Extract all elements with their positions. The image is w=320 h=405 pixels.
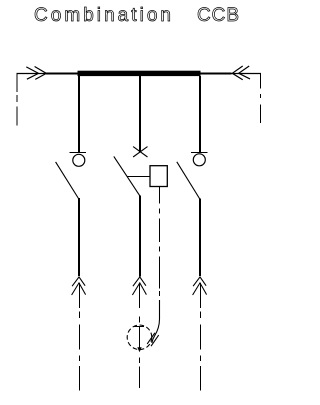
disconnect switch S1 (left): open blade <box>56 162 79 199</box>
wire: middle lower conductor <box>139 196 141 277</box>
CT arrowhead <box>137 347 141 352</box>
left feeder dash-dot drop <box>16 73 18 126</box>
svg-text:Combination: Combination <box>34 5 171 26</box>
control line curved lead to CT <box>152 300 160 343</box>
wire: right arrow shaft <box>200 283 202 308</box>
circuit breaker CB (middle): open blade <box>114 156 140 195</box>
right feeder centerline (bottom dash-dot) <box>200 312 202 391</box>
wire: right lower conductor <box>199 199 201 277</box>
disconnect switch S1 (left): hinge tick <box>69 152 86 154</box>
wire: left conductor thick segment to busbar <box>46 73 78 75</box>
left feeder centerline (bottom dash-dot) <box>79 312 81 391</box>
circuit breaker CB: operating mechanism box <box>150 166 167 187</box>
wire: right conductor thick segment from busbar <box>200 73 232 75</box>
double slash (two conductors mark) <box>147 333 159 346</box>
wire: left arrow shaft <box>79 283 81 308</box>
wire: right drop from busbar <box>199 76 201 152</box>
CT arrow line down <box>139 326 141 348</box>
middle feeder centerline (bottom dash-dot) <box>139 316 141 388</box>
disconnect switch S2 (right): open blade <box>177 162 200 199</box>
CT dashed circle <box>127 325 152 350</box>
busbar <box>78 71 201 76</box>
svg-text:CCB: CCB <box>197 5 239 26</box>
wire: middle drop from busbar <box>139 76 141 152</box>
wire: right outgoing horizontal (thin shaft) <box>200 73 261 75</box>
right feeder dash-dot drop <box>260 73 262 123</box>
CT top tick <box>134 326 144 328</box>
circuit breaker CB: mechanism linkage <box>128 176 150 178</box>
wire: left incoming horizontal (thin shaft) <box>17 73 79 75</box>
arrow: right double chevron pointing left <box>232 66 250 80</box>
title: Combination CCB <box>34 5 239 26</box>
fuse X mark (middle) <box>133 147 147 157</box>
control line from CB box (dash-dot) <box>159 187 161 297</box>
arrow: right double chevron pointing up <box>193 277 207 295</box>
wire: left drop from busbar <box>78 76 80 152</box>
arrow: left double chevron pointing up <box>72 277 86 295</box>
disconnect switch S2 (right): hinge tick <box>191 152 208 154</box>
wire: middle arrow shaft <box>139 283 141 308</box>
disconnect switch S1 (left): hinge circle <box>73 154 85 166</box>
arrow: left double chevron pointing right <box>26 67 46 80</box>
wire: left lower conductor <box>78 198 80 276</box>
disconnect switch S2 (right): hinge circle <box>193 154 205 166</box>
arrow: middle double chevron pointing up <box>132 277 146 295</box>
